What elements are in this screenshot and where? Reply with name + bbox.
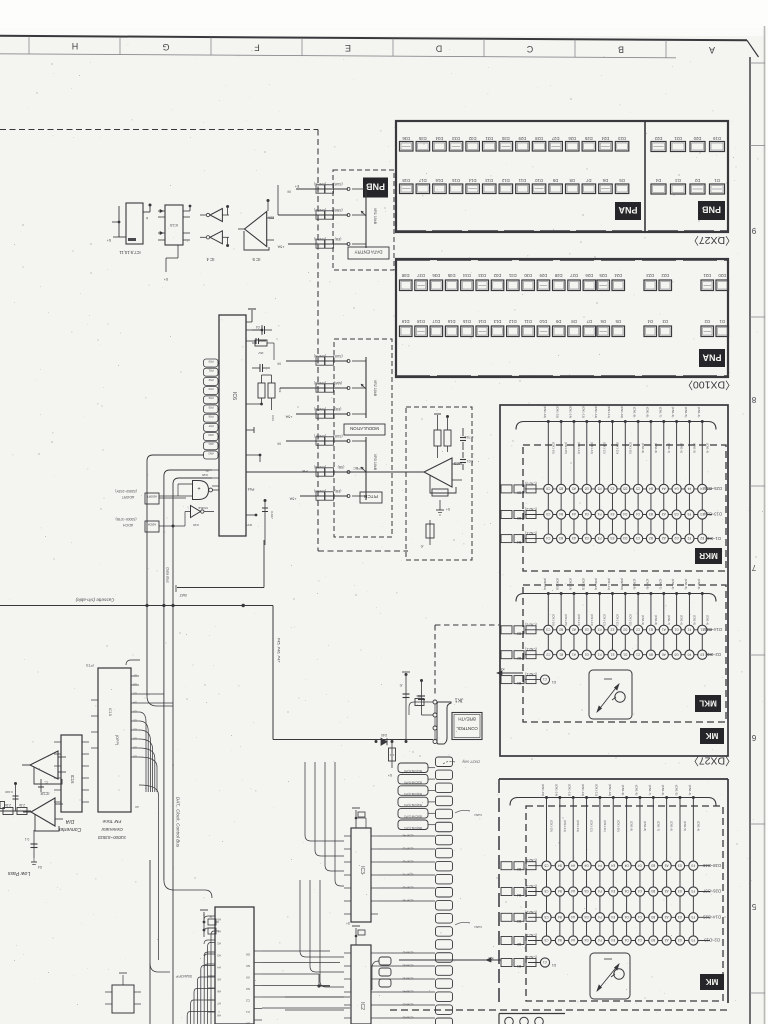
svg-text:E: E — [345, 43, 351, 53]
key switch row B3 (MKL D14~D25) — [501, 622, 722, 635]
svg-text:(CN1-4): (CN1-4) — [697, 579, 701, 590]
svg-text:E4: E4 — [611, 915, 615, 919]
svg-text:(CN1-14): (CN1-14) — [568, 406, 572, 418]
svg-text:AN0: AN0 — [208, 433, 214, 437]
svg-text:(CN1-10): (CN1-10) — [616, 820, 620, 832]
svg-text:(CN1-14): (CN1-14) — [554, 784, 558, 796]
svg-text:F3: F3 — [691, 915, 695, 919]
junction dots on cassette line — [145, 604, 174, 607]
bus wires to bottom (column of three) — [147, 455, 212, 1024]
svg-text:(CN1-11): (CN1-11) — [615, 442, 619, 453]
svg-text:A4: A4 — [571, 889, 575, 893]
svg-text:B1: B1 — [517, 964, 521, 968]
svg-text:D14: D14 — [468, 178, 476, 183]
label PITCH — [360, 492, 382, 503]
svg-text:(CN1-6): (CN1-6) — [661, 785, 665, 796]
svg-text:B4: B4 — [517, 540, 521, 544]
svg-text:F: F — [254, 42, 260, 52]
svg-text:(CN2-2): (CN2-2) — [525, 507, 536, 511]
connector strip CN7 (pin boxes) — [436, 757, 453, 1028]
svg-text:B5: B5 — [559, 487, 563, 491]
svg-text:P00: P00 — [208, 359, 213, 363]
svg-text:D3: D3 — [133, 710, 137, 714]
svg-text:(CN2-1): (CN2-1) — [525, 647, 536, 651]
svg-text:ADCH: ADCH — [123, 523, 134, 527]
svg-text:B6: B6 — [517, 490, 521, 494]
keyboard column bus (MKR top) — [516, 406, 716, 543]
resistor R pullup 1 (pitch) — [434, 409, 441, 458]
connector wires CN7 to IC2 — [378, 951, 435, 1020]
svg-text:buffer: buffer — [473, 813, 482, 817]
connector row CN7-4 (modulation) — [277, 354, 350, 366]
svg-text:MK: MK — [706, 731, 719, 740]
svg-text:D1: D1 — [719, 319, 725, 324]
jack JK1 breath controller — [433, 697, 463, 745]
svg-text:(CN7-7): (CN7-7) — [403, 873, 414, 877]
IC6 A/D block — [204, 315, 247, 536]
svg-text:F4: F4 — [598, 512, 602, 516]
svg-text:D2: D2 — [623, 627, 627, 631]
svg-text:S+: S+ — [107, 238, 112, 242]
svg-text:2.2k: 2.2k — [19, 803, 25, 807]
svg-text:ADGRT: ADGRT — [147, 495, 157, 499]
svg-text:F4: F4 — [598, 889, 602, 893]
svg-text:(CN1-5): (CN1-5) — [683, 821, 687, 831]
wire KB output (MKL) — [497, 667, 523, 675]
svg-text:(CN1-9): (CN1-9) — [633, 579, 637, 590]
svg-text:F4: F4 — [598, 863, 602, 867]
svg-text:D20: D20 — [718, 273, 726, 278]
svg-text:(CN1-13): (CN1-13) — [590, 442, 594, 454]
svg-text:A3: A3 — [664, 863, 668, 867]
svg-text:G5: G5 — [584, 487, 588, 491]
svg-text:(CN1-8): (CN1-8) — [645, 407, 649, 418]
svg-text:D26: D26 — [585, 273, 593, 278]
svg-text:(CN6-6): (CN6-6) — [403, 1016, 414, 1020]
svg-text:ADGRT: ADGRT — [121, 495, 134, 499]
label ADCH — [116, 517, 186, 532]
svg-text:(CN6-2): (CN6-2) — [403, 964, 414, 968]
svg-text:7: 7 — [751, 563, 756, 572]
svg-text:D20: D20 — [693, 136, 701, 141]
svg-text:F4: F4 — [687, 487, 691, 491]
svg-text:(CN1-16): (CN1-16) — [551, 614, 555, 626]
key switch row B3 (DX100 D14~D25) — [501, 910, 721, 923]
svg-text:(CN1-13): (CN1-13) — [581, 406, 585, 418]
dashed enclosure DATA ENTRY (VR1) — [333, 170, 394, 270]
svg-text:A3: A3 — [662, 512, 666, 516]
svg-text:C4: C4 — [638, 938, 642, 942]
svg-text:+5A: +5A — [285, 415, 292, 419]
connector row CN7-3 (data entry) — [277, 237, 350, 249]
svg-text:D34: D34 — [462, 273, 470, 278]
svg-text:D2~D13: D2~D13 — [704, 938, 720, 943]
svg-text:(CN7-6): (CN7-6) — [314, 407, 326, 411]
svg-text:(CN1-15): (CN1-15) — [564, 442, 568, 454]
svg-text:(CN1-12): (CN1-12) — [590, 820, 594, 832]
svg-text:A4: A4 — [571, 863, 575, 867]
svg-text:G3: G3 — [674, 512, 678, 516]
svg-text:S+: S+ — [388, 773, 392, 777]
svg-text:(SB): (SB) — [338, 465, 345, 469]
svg-text:B3: B3 — [651, 915, 655, 919]
IC2 block — [344, 945, 378, 1024]
svg-text:(CN1-6): (CN1-6) — [671, 579, 675, 590]
svg-text:(CN1-5): (CN1-5) — [675, 785, 679, 796]
svg-text:P45, P46, P47: P45, P46, P47 — [277, 638, 281, 663]
svg-text:D11: D11 — [524, 319, 532, 324]
svg-text:B0: B0 — [649, 652, 653, 656]
svg-text:S+: S+ — [446, 507, 450, 511]
svg-text:/0: /0 — [399, 683, 402, 687]
svg-text:E5: E5 — [610, 487, 614, 491]
svg-text:(CN2-3): (CN2-3) — [525, 884, 536, 888]
svg-text:AN2: AN2 — [208, 451, 214, 455]
connector row CN7-1 (data entry) — [287, 182, 350, 194]
label PNA (DX100 panel) — [699, 349, 725, 367]
svg-text:N2: N2 — [246, 987, 250, 991]
svg-text:PNB: PNB — [366, 182, 386, 192]
svg-text:A7: A7 — [217, 1002, 221, 1006]
svg-text:(CN1-12): (CN1-12) — [594, 578, 598, 590]
svg-text:A1: A1 — [662, 627, 666, 631]
svg-text:D1: D1 — [552, 680, 556, 684]
svg-text:B3: B3 — [651, 938, 655, 942]
svg-text:B1: B1 — [649, 627, 653, 631]
svg-text:MODULATION: MODULATION — [350, 426, 379, 431]
svg-text:+: + — [197, 485, 200, 491]
power stub +5 (CPU) — [200, 910, 219, 937]
svg-text:D7: D7 — [585, 178, 591, 183]
svg-text:D36: D36 — [432, 273, 440, 278]
svg-text:G3: G3 — [678, 889, 682, 893]
key switch row B4 (DX100 D26~D37) — [501, 884, 721, 897]
svg-text:B4: B4 — [558, 915, 562, 919]
svg-text:FM Tone: FM Tone — [102, 818, 121, 824]
svg-text:D25: D25 — [599, 273, 607, 278]
svg-text:/0: /0 — [420, 544, 423, 548]
svg-text:(CN1-12): (CN1-12) — [594, 406, 598, 418]
svg-text:VR2 10kB: VR2 10kB — [373, 380, 377, 397]
svg-text:D0: D0 — [133, 746, 137, 750]
svg-text:(CN1-6): (CN1-6) — [671, 407, 675, 418]
key switch row B2 (MKL D2~D13) — [501, 647, 721, 660]
label MODULATION — [344, 424, 385, 435]
svg-text:C: C — [526, 44, 533, 54]
svg-text:(CN7-6): (CN7-6) — [403, 860, 414, 864]
svg-text:IC6: IC6 — [231, 392, 237, 400]
svg-text:(CN1-5): (CN1-5) — [684, 407, 688, 418]
svg-text:PBC: PBC — [353, 466, 361, 470]
svg-text:D4: D4 — [624, 863, 628, 867]
wire BAT line — [176, 540, 264, 598]
svg-text:D1: D1 — [623, 652, 627, 656]
svg-text:22k: 22k — [278, 388, 282, 393]
svg-text:G4: G4 — [584, 863, 588, 867]
vertical label DAT clock control bus — [176, 797, 181, 848]
svg-text:P05: P05 — [208, 405, 213, 409]
svg-text:C1: C1 — [543, 677, 547, 681]
capacitor C4 (near IC13) — [252, 325, 272, 334]
OR gate (reset logic) — [159, 473, 219, 500]
svg-text:D28: D28 — [534, 136, 542, 141]
svg-text:G3: G3 — [678, 915, 682, 919]
svg-text:D7: D7 — [586, 319, 592, 324]
svg-text:STABLE: STABLE — [198, 506, 208, 510]
svg-text:D29: D29 — [518, 136, 526, 141]
svg-text:D8: D8 — [569, 178, 575, 183]
svg-text:JK1: JK1 — [454, 697, 463, 703]
svg-text:(CN1-9): (CN1-9) — [630, 821, 634, 831]
svg-text:D10: D10 — [534, 178, 542, 183]
svg-text:(CN2-2): (CN2-2) — [525, 622, 536, 626]
resistor trim (pitch lower) — [420, 520, 434, 548]
svg-text:(CN1-13): (CN1-13) — [581, 578, 585, 590]
svg-text:C3: C3 — [636, 536, 640, 540]
svg-text:(CN1-15): (CN1-15) — [556, 406, 560, 418]
DX27 PNB switch row 2 (D1-D4) — [651, 178, 725, 194]
svg-text:(CN1-12): (CN1-12) — [581, 784, 585, 796]
svg-text:G4: G4 — [584, 915, 588, 919]
svg-text:B4: B4 — [558, 863, 562, 867]
IC1 CPU block (bottom) — [204, 907, 262, 1026]
svg-text:(CN1-8): (CN1-8) — [645, 579, 649, 590]
svg-text:D21: D21 — [703, 273, 711, 278]
svg-text:D31: D31 — [508, 273, 516, 278]
svg-text:IC5: IC5 — [453, 461, 460, 466]
svg-text:A4: A4 — [217, 966, 221, 970]
wires CPU right to connectors — [262, 951, 350, 1008]
svg-text:P07: P07 — [208, 424, 213, 428]
svg-text:(CN1-14): (CN1-14) — [568, 578, 572, 590]
svg-text:MK: MK — [706, 977, 719, 986]
svg-text:D40: D40 — [381, 733, 387, 737]
svg-text:C1: C1 — [543, 960, 547, 964]
svg-text:(CN7-1): (CN7-1) — [314, 182, 326, 186]
svg-text:DX27 only: DX27 only — [461, 760, 480, 764]
IC10 block — [158, 205, 191, 281]
svg-text:S3000~S3533: S3000~S3533 — [97, 835, 126, 840]
svg-text:F5: F5 — [598, 487, 602, 491]
inverter gate (stable) — [185, 506, 214, 528]
svg-text:D1~D12: D1~D12 — [705, 536, 721, 541]
svg-text:C1: C1 — [636, 652, 640, 656]
svg-text:(CN1-12): (CN1-12) — [603, 442, 607, 454]
svg-text:A1: A1 — [572, 652, 576, 656]
svg-text:D5: D5 — [619, 178, 625, 183]
svg-text:(CN6-5): (CN6-5) — [403, 1003, 414, 1007]
svg-text:D17: D17 — [418, 178, 426, 183]
key switch row B4 (MKR D1~D12) — [501, 531, 721, 544]
svg-text:(CN1-11): (CN1-11) — [594, 784, 598, 796]
svg-text:D12: D12 — [501, 178, 509, 183]
wire P45-P47 bus — [273, 606, 433, 740]
IC16 D/A block — [54, 735, 89, 832]
key switch row B2 (DX100 D2~D13) — [501, 933, 720, 946]
svg-text:B3: B3 — [559, 536, 563, 540]
svg-text:D13: D13 — [485, 178, 493, 183]
dashed enclosure MKL — [523, 585, 726, 722]
wire fan from OPP pins — [126, 660, 173, 960]
svg-text:P06: P06 — [208, 415, 213, 419]
svg-text:D15: D15 — [462, 319, 470, 324]
key switch row B5 (DX100 D38~D49) — [501, 858, 721, 871]
resistor R pullup 2 (pitch) — [444, 415, 451, 452]
svg-text:B5: B5 — [517, 867, 521, 871]
svg-text:PNA: PNA — [618, 205, 638, 215]
svg-text:S+: S+ — [164, 277, 169, 281]
svg-text:G2: G2 — [674, 536, 678, 540]
wires into IC2 left — [285, 880, 344, 1010]
op-amp buffer A (output) — [22, 751, 66, 784]
svg-text:B1(CN9-6) P6: B1(CN9-6) P6 — [404, 769, 422, 773]
svg-text:VR3 10kB: VR3 10kB — [373, 454, 377, 471]
svg-text:D30: D30 — [501, 136, 509, 141]
svg-text:A3: A3 — [664, 938, 668, 942]
svg-text:D32: D32 — [493, 273, 501, 278]
key contact detail (MKL) — [589, 670, 632, 719]
svg-text:S+: S+ — [346, 921, 350, 925]
svg-text:(CN1-10): (CN1-10) — [628, 614, 632, 626]
svg-text:XX: XX — [246, 976, 250, 980]
svg-text:5: 5 — [751, 902, 756, 911]
connector row CN7-2 (data entry) — [268, 208, 350, 220]
svg-text:D25: D25 — [584, 136, 592, 141]
svg-text:B2(CN9-5) P5: B2(CN9-5) P5 — [404, 780, 422, 784]
svg-text:Data Bus: Data Bus — [166, 567, 170, 583]
svg-text:IC 5: IC 5 — [252, 257, 261, 262]
svg-text:D36: D36 — [402, 136, 410, 141]
capacitor C5 (near IC13) — [252, 364, 270, 372]
resistor 422 (breath) — [388, 742, 396, 778]
svg-text:D/A: D/A — [65, 818, 74, 824]
svg-text:D35: D35 — [447, 273, 455, 278]
svg-text:D31: D31 — [485, 136, 493, 141]
svg-text:G4: G4 — [584, 938, 588, 942]
power stub IC3 — [352, 808, 366, 828]
potentiometer VR1 — [352, 185, 377, 248]
svg-text:OK: OK — [246, 953, 250, 957]
svg-text:(EB): (EB) — [335, 407, 342, 411]
svg-text:C4: C4 — [638, 915, 642, 919]
svg-text:D13~D24: D13~D24 — [703, 512, 721, 517]
svg-text:(CN6-4): (CN6-4) — [403, 990, 414, 994]
svg-text:RST: RST — [246, 523, 252, 527]
svg-text:A3: A3 — [664, 889, 668, 893]
svg-text:A5: A5 — [572, 487, 576, 491]
svg-text:(CN1-10): (CN1-10) — [628, 442, 632, 454]
svg-text:D14~D25: D14~D25 — [703, 627, 721, 632]
svg-text:(EB): (EB) — [335, 237, 342, 241]
svg-text:(CN1-16): (CN1-16) — [551, 442, 555, 454]
svg-text:D5: D5 — [623, 487, 627, 491]
svg-text:G4: G4 — [584, 889, 588, 893]
svg-text:IC 4: IC 4 — [206, 257, 215, 262]
svg-text:M: M — [277, 362, 280, 366]
keyboard column bus (MKL) — [516, 578, 716, 659]
svg-text:P64: P64 — [248, 487, 255, 491]
svg-text:(S2800~2S5Y): (S2800~2S5Y) — [115, 489, 137, 493]
svg-text:A3: A3 — [572, 536, 576, 540]
svg-text:E3: E3 — [610, 536, 614, 540]
grid numbers 9-5 (right band, upside down) — [750, 63, 765, 993]
wire fan CPU address lines (left, down) — [187, 931, 215, 1024]
svg-text:(CN1-10): (CN1-10) — [608, 784, 612, 796]
svg-text:(SRB): (SRB) — [333, 208, 342, 212]
dashed bottom boundary (DX100 block) — [390, 1009, 728, 1011]
svg-text:D13: D13 — [493, 319, 501, 324]
svg-text:C5: C5 — [544, 889, 548, 893]
svg-text:D19: D19 — [401, 319, 409, 324]
keyboard column bus (DX100 MK) — [510, 784, 716, 945]
svg-text:(CN1-7): (CN1-7) — [648, 785, 652, 796]
DX27 PNA switch row 1 (D23-D36) — [400, 136, 629, 151]
dashed enclosure MKR — [523, 445, 726, 571]
svg-text:(CN1-4): (CN1-4) — [696, 821, 700, 831]
label MK (DX27) — [700, 728, 724, 744]
svg-text:F2: F2 — [598, 627, 602, 631]
svg-text:(CN1-5): (CN1-5) — [684, 579, 688, 590]
connector row CN7-7 (pitch) — [277, 434, 350, 446]
svg-text:22k: 22k — [268, 216, 274, 220]
svg-text:A2: A2 — [572, 627, 576, 631]
svg-text:(CN6-3): (CN6-3) — [403, 977, 414, 981]
keyboard block outer box (DX27 MK) — [500, 405, 728, 756]
svg-text:PNA: PNA — [702, 353, 722, 363]
junction dots (breath wire) — [375, 740, 408, 743]
key switch row B5 (MKR D13~D24) — [501, 507, 722, 520]
svg-text:B3: B3 — [517, 919, 521, 923]
svg-text:B6(CN9-1) P1: B6(CN9-1) P1 — [404, 826, 422, 830]
svg-text:P01: P01 — [208, 369, 213, 373]
IC3 block — [344, 828, 378, 922]
svg-text:(CN2-3): (CN2-3) — [525, 481, 536, 485]
svg-text:A0: A0 — [135, 805, 139, 809]
svg-text:(CN7-5): (CN7-5) — [314, 381, 326, 385]
svg-text:G4: G4 — [674, 487, 678, 491]
svg-text:D37: D37 — [416, 273, 424, 278]
svg-text:E4: E4 — [610, 512, 614, 516]
svg-text:(CN2-1): (CN2-1) — [525, 672, 536, 676]
DX27 PNA switch row 2 (D5-D18) — [400, 178, 629, 194]
svg-text:D33: D33 — [451, 136, 459, 141]
svg-text:B1: B1 — [559, 652, 563, 656]
svg-text:B3: B3 — [649, 512, 653, 516]
edge connector stub (left) — [0, 802, 5, 809]
svg-text:B4(CN9-3) P3: B4(CN9-3) P3 — [404, 803, 422, 807]
wires into IC3 left (address bus) — [305, 762, 344, 886]
svg-text:D9: D9 — [555, 319, 561, 324]
label MKL — [695, 695, 721, 712]
svg-text:(SUB): (SUB) — [333, 354, 342, 358]
svg-text:A3: A3 — [664, 915, 668, 919]
svg-text:DAT., Clock, Control Bus: DAT., Clock, Control Bus — [176, 797, 181, 848]
svg-text:422: 422 — [389, 753, 394, 757]
potentiometer VR2 — [352, 357, 377, 418]
svg-text:(CN1-9): (CN1-9) — [621, 785, 625, 796]
connector wires CN7 to IC3 — [378, 834, 435, 903]
svg-text:D3: D3 — [623, 536, 627, 540]
svg-text:D23: D23 — [646, 273, 654, 278]
svg-text:M: M — [287, 190, 290, 194]
svg-text:(CN1-8): (CN1-8) — [654, 615, 658, 625]
keyboard block outer box (DX100 MK) — [499, 779, 728, 1003]
svg-text:(CN1-6): (CN1-6) — [680, 615, 684, 625]
label MK (DX100) — [700, 974, 724, 990]
svg-text:MKR: MKR — [699, 551, 718, 560]
svg-text:E4: E4 — [611, 938, 615, 942]
svg-text:D0: D0 — [133, 737, 137, 741]
